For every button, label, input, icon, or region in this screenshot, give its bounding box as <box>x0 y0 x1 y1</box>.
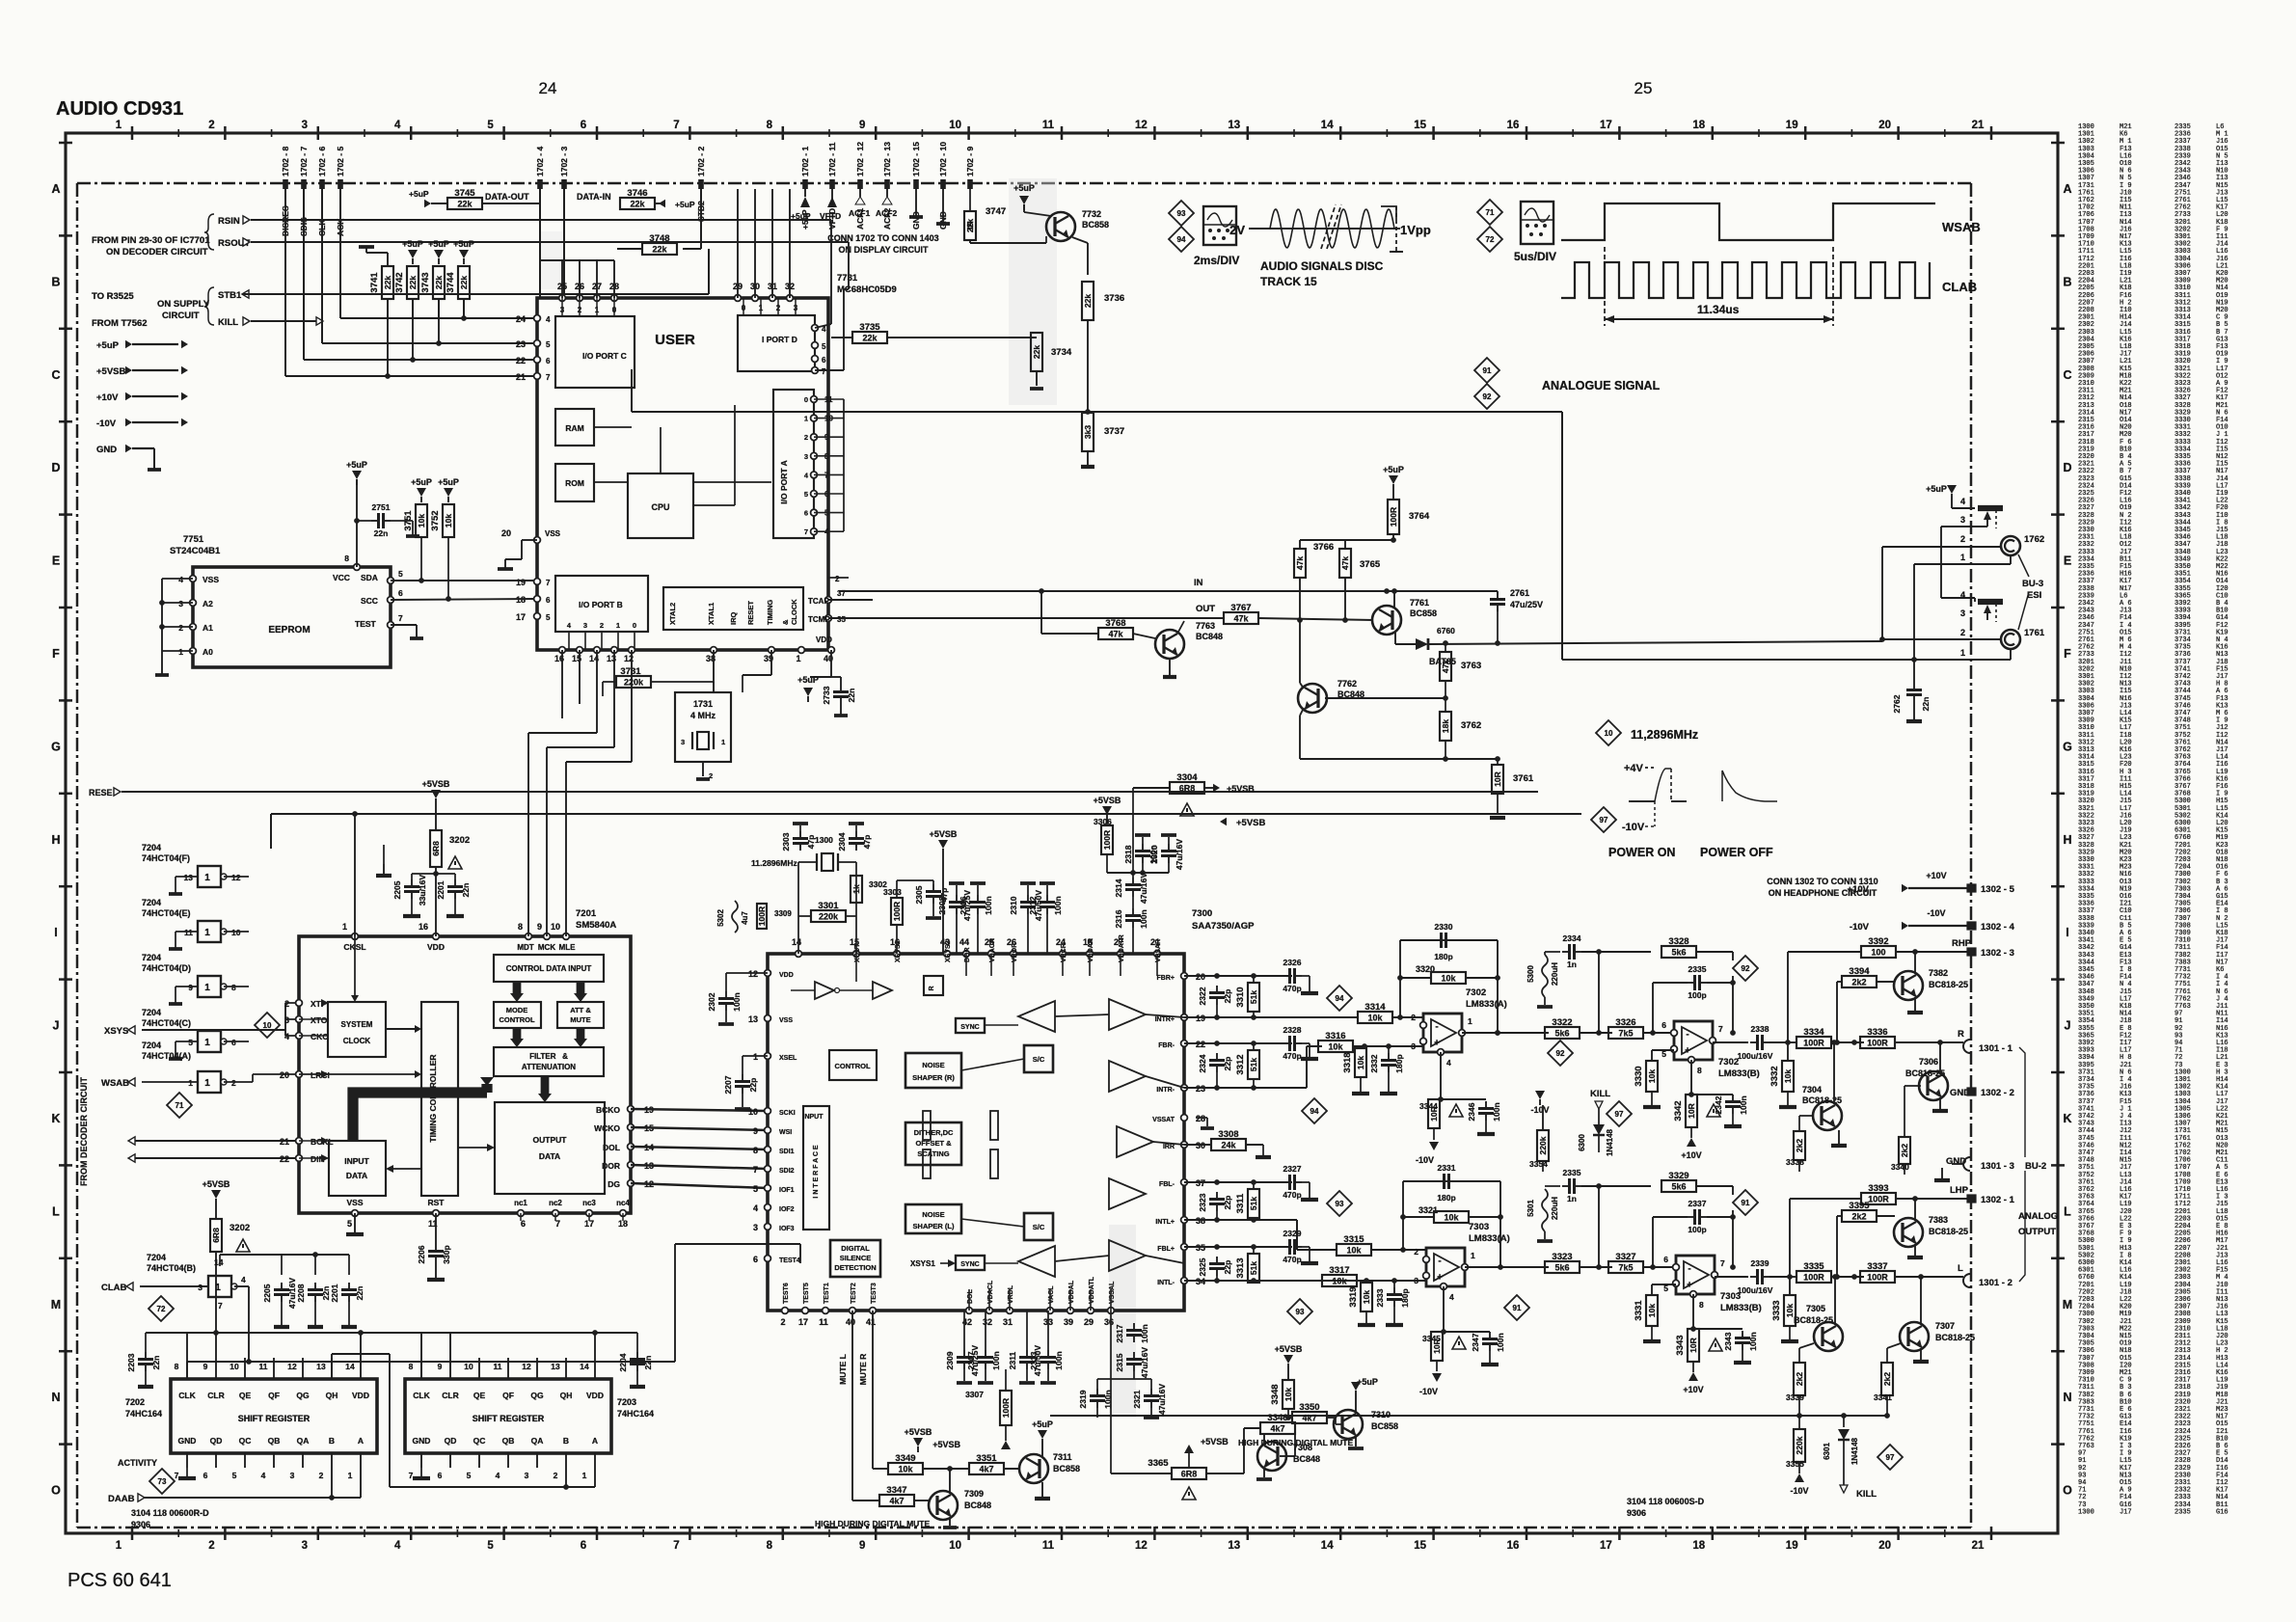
svg-text:1: 1 <box>1960 553 1965 562</box>
svg-text:LM833(A): LM833(A) <box>1469 1233 1510 1244</box>
svg-text:PCS 60 641: PCS 60 641 <box>68 1570 172 1591</box>
opamp tri L3 <box>1109 1240 1146 1271</box>
capacitor 2328 470p <box>1283 1025 1318 1061</box>
transistor 7732 BC858 <box>970 209 1109 243</box>
junction dots pullups <box>385 299 467 379</box>
svg-text:2: 2 <box>1960 534 1965 544</box>
USER top pins 25-28 <box>540 189 619 301</box>
svg-text:2: 2 <box>1414 1247 1418 1257</box>
svg-text:R: R <box>1958 1029 1964 1040</box>
connector pin 1702 - 4 <box>535 147 545 189</box>
capacitor 2317 100n <box>1115 1311 1149 1343</box>
svg-text:22p: 22p <box>1223 1260 1232 1275</box>
svg-text:F: F <box>2064 647 2071 661</box>
resistor 3334 100R <box>1788 1027 1864 1048</box>
svg-text:BU-2: BU-2 <box>2025 1161 2046 1172</box>
svg-text:3104 118 00600S-D: 3104 118 00600S-D <box>1627 1497 1705 1506</box>
resistor 3735 22k <box>831 322 1037 343</box>
capacitor 2320 47u/16V <box>1149 835 1184 873</box>
svg-text:470p: 470p <box>1283 1255 1301 1264</box>
opamp tri R3 <box>1109 1061 1146 1092</box>
scan smudge 1 <box>1009 178 1057 405</box>
supply +5VSB left arrow <box>1220 818 1266 828</box>
coil 5300 220uH <box>1526 952 1559 1007</box>
svg-text:2347: 2347 <box>1471 1333 1480 1351</box>
svg-text:5k6: 5k6 <box>1671 948 1686 958</box>
arrow ACF1 <box>849 189 870 218</box>
svg-text:22k: 22k <box>434 276 444 289</box>
svg-text:4k7: 4k7 <box>1270 1424 1284 1434</box>
svg-text:6: 6 <box>398 588 403 598</box>
svg-text:INTL-: INTL- <box>1157 1280 1175 1286</box>
svg-text:TO R3525: TO R3525 <box>92 291 134 302</box>
svg-text:2329: 2329 <box>1283 1229 1302 1238</box>
capacitor 2311 47u/50V <box>1008 1311 1042 1383</box>
svg-text:FROM T7562: FROM T7562 <box>92 318 148 329</box>
block I/O PORT B <box>516 576 648 650</box>
wire 3392 rail up <box>1787 952 1789 1042</box>
svg-text:2317: 2317 <box>1115 1324 1124 1342</box>
svg-text:+5VSB: +5VSB <box>422 779 450 789</box>
svg-text:32: 32 <box>983 1317 992 1327</box>
svg-text:QE: QE <box>239 1391 252 1400</box>
svg-text:2203: 2203 <box>126 1353 136 1371</box>
gnd stub 1702-10 <box>936 189 950 224</box>
svg-text:2: 2 <box>178 623 183 633</box>
svg-text:1: 1 <box>1468 1016 1472 1026</box>
svg-text:+5VSB: +5VSB <box>1201 1437 1229 1446</box>
svg-text:22: 22 <box>280 1154 289 1164</box>
svg-text:74HCT04(B): 74HCT04(B) <box>147 1263 196 1273</box>
svg-text:4 MHz: 4 MHz <box>690 711 716 720</box>
resistor 3335 100R <box>1790 1261 1864 1283</box>
svg-text:74HCT04(F): 74HCT04(F) <box>142 853 190 863</box>
svg-text:nc2: nc2 <box>549 1199 562 1207</box>
svg-text:1: 1 <box>204 928 210 938</box>
svg-text:8: 8 <box>344 554 349 563</box>
resistor 3743 22k <box>420 239 449 318</box>
svg-text:40: 40 <box>846 1317 855 1327</box>
wire cksl down <box>351 936 376 1002</box>
svg-text:GND: GND <box>413 1436 431 1446</box>
svg-text:35: 35 <box>837 615 846 624</box>
svg-text:14: 14 <box>1321 120 1334 131</box>
svg-text:100n: 100n <box>984 896 993 914</box>
capacitor 2762 22n <box>1892 660 1931 721</box>
svg-text:51k: 51k <box>1249 1058 1258 1071</box>
svg-text:INTR-: INTR- <box>1156 1087 1175 1094</box>
svg-text:+: + <box>1434 1038 1440 1048</box>
svg-text:22p: 22p <box>1223 1196 1232 1210</box>
thick arrow cdi-mode <box>510 982 524 1002</box>
diamond 91 output <box>1504 1295 1529 1320</box>
svg-text:BC858: BC858 <box>1410 608 1437 618</box>
svg-text:3741: 3741 <box>369 272 380 293</box>
arrow ACF2 <box>876 189 897 218</box>
svg-text:13: 13 <box>748 1014 758 1024</box>
svg-text:KILL: KILL <box>1590 1089 1610 1099</box>
svg-text:3319: 3319 <box>1348 1286 1359 1307</box>
svg-text:QC: QC <box>473 1436 486 1446</box>
svg-text:-: - <box>1688 1264 1690 1275</box>
svg-text:6760: 6760 <box>1437 626 1455 635</box>
coil 5301 220uH <box>1526 1189 1559 1241</box>
resistor 3327 7k5 <box>1608 1252 1676 1273</box>
svg-text:8: 8 <box>767 1540 773 1552</box>
wire 7310 emitter <box>1348 1435 1364 1448</box>
resistor 3202 6R8 lower <box>210 1219 250 1333</box>
svg-text:F: F <box>52 647 60 661</box>
svg-text:FROM PIN 29-30 OF IC7701: FROM PIN 29-30 OF IC7701 <box>92 235 210 246</box>
label AUDIO SIGNALS DISC <box>1260 259 1384 288</box>
svg-text:1702 - 12: 1702 - 12 <box>855 142 865 176</box>
svg-text:INTL+: INTL+ <box>1155 1219 1175 1226</box>
svg-text:O: O <box>2063 1484 2072 1498</box>
capacitor 2322 22p <box>1184 973 1292 1020</box>
svg-text:VDD: VDD <box>427 942 445 952</box>
svg-text:180p: 180p <box>1400 1288 1410 1307</box>
diamond 92 output <box>1548 1041 1573 1066</box>
svg-text:FBL+: FBL+ <box>1157 1246 1175 1253</box>
svg-text:14: 14 <box>792 937 801 947</box>
svg-text:DETECTION: DETECTION <box>834 1263 876 1272</box>
svg-text:S/C: S/C <box>1033 1223 1045 1231</box>
svg-text:12: 12 <box>748 969 758 979</box>
svg-text:100R: 100R <box>757 906 767 926</box>
svg-text:8: 8 <box>1699 1300 1704 1310</box>
wire 7303b plus <box>1652 1284 1676 1295</box>
wire 7302a out <box>1462 1030 1549 1036</box>
svg-text:3322: 3322 <box>1552 1017 1572 1028</box>
svg-text:7731: 7731 <box>837 273 858 284</box>
resistor ladder saa <box>923 1111 998 1178</box>
svg-text:1702 - 11: 1702 - 11 <box>827 142 837 176</box>
svg-text:LM833(A): LM833(A) <box>1466 999 1507 1010</box>
svg-text:5: 5 <box>398 569 403 579</box>
resistor 3752 10k <box>430 477 459 599</box>
wire USER to MCK <box>547 650 614 936</box>
svg-text:30: 30 <box>1196 1141 1205 1150</box>
resistor 3340 2k2 <box>1891 1137 1910 1175</box>
svg-text:CKO: CKO <box>311 1032 329 1041</box>
wire MUTE L <box>838 1311 852 1500</box>
thick arrow cdi-att <box>574 982 587 1002</box>
svg-text:VSS: VSS <box>346 1198 363 1207</box>
svg-text:nc3: nc3 <box>582 1199 596 1207</box>
svg-text:DG: DG <box>608 1179 620 1189</box>
resistor 3304 6R8 <box>1133 772 1213 873</box>
small box R3 <box>924 976 943 995</box>
svg-text:91: 91 <box>1742 1199 1750 1207</box>
svg-text:nc1: nc1 <box>514 1199 527 1207</box>
svg-text:2307: 2307 <box>966 1351 976 1369</box>
svg-text:-10V: -10V <box>1416 1155 1434 1165</box>
svg-text:2332: 2332 <box>1369 1054 1379 1072</box>
wire timing-input <box>386 1165 421 1173</box>
svg-text:3: 3 <box>302 1540 308 1552</box>
svg-text:6R8: 6R8 <box>1179 784 1196 794</box>
svg-text:4: 4 <box>546 315 551 324</box>
svg-text:100n: 100n <box>1492 1102 1501 1121</box>
svg-text:7302: 7302 <box>1718 1057 1739 1068</box>
svg-text:1: 1 <box>116 1540 122 1552</box>
svg-text:CLOCK: CLOCK <box>343 1037 371 1045</box>
svg-text:XSYS1: XSYS1 <box>895 940 902 962</box>
capacitor 2334 1n <box>1545 933 1602 969</box>
svg-text:22n: 22n <box>151 1356 161 1370</box>
block SYNC top <box>956 1018 985 1033</box>
svg-text:L: L <box>2064 1204 2071 1218</box>
svg-text:3748: 3748 <box>649 233 669 244</box>
capacitor 2303 47p <box>781 824 816 862</box>
svg-text:2207: 2207 <box>723 1075 733 1094</box>
capacitor 2304 47p <box>837 824 872 851</box>
port +10V 1302-5 <box>1848 871 2015 895</box>
svg-text:3336: 3336 <box>1867 1027 1887 1038</box>
svg-text:3365: 3365 <box>1148 1458 1169 1469</box>
svg-text:1: 1 <box>616 621 620 630</box>
resistor 3341 2k2 <box>1874 1343 1901 1419</box>
svg-text:2: 2 <box>835 575 840 583</box>
capacitor 2314 47u/16V <box>1114 873 1148 906</box>
svg-text:BC818-25: BC818-25 <box>1905 1068 1945 1078</box>
svg-text:47k: 47k <box>1233 614 1249 624</box>
svg-text:2304: 2304 <box>837 832 847 851</box>
label 2ms/DIV <box>1194 254 1239 267</box>
svg-text:470p: 470p <box>1283 984 1301 993</box>
wire conn row1b <box>1562 648 2011 662</box>
svg-text:25: 25 <box>1634 79 1653 97</box>
wire serial link y1169 <box>631 1127 768 1130</box>
sine waveform 1Vpp <box>1249 204 1403 252</box>
svg-text:1301 - 3: 1301 - 3 <box>1981 1161 2014 1172</box>
svg-text:51k: 51k <box>1249 1197 1258 1210</box>
svg-text:5300: 5300 <box>1526 965 1535 983</box>
port DAAB <box>108 1468 361 1504</box>
svg-text:VDD: VDD <box>816 635 832 644</box>
svg-text:M: M <box>51 1298 61 1311</box>
USER port C left pins 21-24 <box>516 314 551 382</box>
capacitor 2315 47u/16V <box>1115 1347 1149 1379</box>
svg-text:3349: 3349 <box>895 1453 915 1464</box>
svg-text:3309: 3309 <box>774 909 792 918</box>
svg-text:8: 8 <box>409 1362 414 1371</box>
resistor 3342 10R <box>1673 1095 1720 1160</box>
svg-text:91: 91 <box>1513 1304 1522 1312</box>
svg-text:3342: 3342 <box>1673 1100 1684 1121</box>
wire lrci-timing <box>299 1070 421 1078</box>
svg-text:2: 2 <box>1960 628 1965 637</box>
svg-text:+5uP: +5uP <box>402 239 423 249</box>
svg-text:2V: 2V <box>1229 223 1245 237</box>
svg-text:SYSTEM: SYSTEM <box>341 1020 373 1029</box>
wire conn row2a <box>1882 534 2002 639</box>
svg-text:OUTPUT: OUTPUT <box>2018 1227 2056 1237</box>
block NOISE SHAPER L <box>905 1204 961 1233</box>
svg-text:4k7: 4k7 <box>1302 1414 1316 1423</box>
capacitor 2327 470p <box>1283 1164 1318 1200</box>
block SYSTEM CLOCK <box>328 1002 386 1057</box>
svg-text:POWER ON: POWER ON <box>1608 846 1675 859</box>
svg-text:7300: 7300 <box>1192 908 1212 919</box>
svg-text:8: 8 <box>518 922 523 932</box>
wire 7762 base <box>1325 695 1448 701</box>
svg-text:7k5: 7k5 <box>1618 1029 1633 1039</box>
svg-text:20: 20 <box>280 1070 289 1080</box>
connector pin 1702 - 7 (SDIS) <box>299 147 309 236</box>
svg-text:1702 - 15: 1702 - 15 <box>911 142 921 176</box>
capacitor 2751 22n <box>354 502 419 538</box>
svg-text:ACF2: ACF2 <box>876 208 897 218</box>
diamond 71 <box>1477 200 1502 225</box>
connector pin 1702 - 1 (+5uP) <box>800 147 810 230</box>
svg-text:DATA-OUT: DATA-OUT <box>485 192 529 202</box>
svg-text:G: G <box>2063 740 2072 753</box>
svg-text:3737: 3737 <box>1104 426 1124 437</box>
svg-text:470p: 470p <box>1283 1051 1301 1061</box>
svg-text:1702 - 13: 1702 - 13 <box>882 142 892 176</box>
diamond 91 analogue <box>1474 358 1499 383</box>
svg-text:7310: 7310 <box>1371 1410 1391 1419</box>
resistor 3313 51k <box>1235 1244 1259 1284</box>
ic label 7731 MC68HC05D9 <box>837 273 897 295</box>
svg-text:2: 2 <box>554 1471 558 1480</box>
svg-text:+10V: +10V <box>1926 871 1946 880</box>
svg-text:72: 72 <box>1486 235 1495 244</box>
svg-text:VACL: VACL <box>1048 1285 1055 1304</box>
resistor 3761 10R <box>1490 759 1534 818</box>
svg-text:SYNC: SYNC <box>960 1024 979 1031</box>
connector pin 1702 - 5 (ACK) <box>336 147 345 236</box>
svg-text:100u/16V: 100u/16V <box>1738 1285 1773 1295</box>
svg-text:47k: 47k <box>1340 556 1350 570</box>
ic label 7201 SM5840A <box>576 908 616 931</box>
svg-text:3: 3 <box>198 1283 203 1292</box>
capacitor 2306 100n <box>959 883 993 954</box>
svg-text:5: 5 <box>546 340 551 349</box>
label HIGH DURING DIGITAL MUTE center <box>815 1519 930 1528</box>
svg-text:19: 19 <box>516 578 526 587</box>
transistor 7382 BC818-25 <box>1894 952 1968 1013</box>
connector pin 1702 - 12 (ACF1) <box>855 142 865 230</box>
diamond 73 <box>149 1469 175 1494</box>
SAA7350 bottom pins <box>780 1276 1116 1327</box>
svg-text:I/O PORT A: I/O PORT A <box>779 460 789 504</box>
label 5us/DIV <box>1514 250 1556 263</box>
svg-text:7204: 7204 <box>142 1041 161 1050</box>
SAA7350 right pins <box>1152 972 1205 1286</box>
svg-text:7204: 7204 <box>142 953 161 962</box>
svg-text:7: 7 <box>546 579 551 587</box>
note TO R3525 <box>92 291 134 302</box>
svg-text:14: 14 <box>345 1362 355 1371</box>
connector pin 1702 - 11 (VFTD) <box>827 142 837 230</box>
svg-text:+5VSB: +5VSB <box>1094 796 1121 805</box>
svg-text:39: 39 <box>1064 1317 1073 1327</box>
capacitor 2321 47u/16V <box>1132 1379 1167 1418</box>
svg-text:+: + <box>1437 1272 1443 1283</box>
svg-text:DATA-IN: DATA-IN <box>577 192 611 202</box>
supply +5VSB mid bottom <box>1184 1437 1229 1468</box>
svg-text:3348: 3348 <box>1270 1384 1281 1404</box>
svg-text:2205: 2205 <box>262 1284 272 1302</box>
svg-text:92: 92 <box>1556 1049 1565 1058</box>
svg-text:+5uP: +5uP <box>1013 183 1035 193</box>
resistor 3311 51k <box>1235 1179 1259 1223</box>
svg-text:+: + <box>1687 1280 1692 1290</box>
svg-text:3751: 3751 <box>403 510 414 531</box>
capacitor 2208 22n <box>282 1252 349 1327</box>
page number 24 <box>539 79 557 97</box>
wire saa sc links <box>961 1025 1024 1263</box>
svg-text:33u/16V: 33u/16V <box>418 875 427 906</box>
svg-text:VSSAR: VSSAR <box>1155 939 1162 962</box>
resistor 3763 47k <box>1440 644 1481 698</box>
svg-text:1k: 1k <box>851 884 861 894</box>
svg-text:J: J <box>2065 1019 2071 1033</box>
resistor 3349 10k <box>873 1453 969 1474</box>
svg-text:1: 1 <box>188 1078 193 1088</box>
svg-text:DATA: DATA <box>346 1171 367 1180</box>
wire 7311 emitter <box>1035 1482 1050 1499</box>
svg-text:22p: 22p <box>748 1078 758 1093</box>
svg-text:9: 9 <box>537 922 542 932</box>
connector pin 1702 - 9 (IR) <box>965 147 975 230</box>
svg-text:21: 21 <box>516 372 526 382</box>
label DATA-OUT <box>485 192 529 202</box>
capacitor 2332 180p <box>1369 1046 1404 1094</box>
svg-text:71: 71 <box>176 1101 184 1110</box>
label 11,2896MHz <box>1631 728 1698 742</box>
svg-text:QH: QH <box>326 1391 338 1400</box>
svg-text:2201: 2201 <box>436 880 446 899</box>
svg-text:1762: 1762 <box>2024 534 2044 545</box>
svg-text:4k7: 4k7 <box>889 1497 904 1506</box>
wire 7303a pin4 <box>1443 1286 1445 1332</box>
svg-text:4u7: 4u7 <box>741 911 749 925</box>
svg-text:A: A <box>2063 182 2071 196</box>
svg-text:VCC: VCC <box>333 573 350 582</box>
svg-text:IOF2: IOF2 <box>779 1206 795 1213</box>
svg-text:1702 - 1: 1702 - 1 <box>800 147 810 176</box>
SM5840A pin 20 LRCI <box>280 1070 330 1080</box>
svg-text:G16: G16 <box>2216 1508 2228 1516</box>
svg-text:7: 7 <box>804 527 808 536</box>
label WSAB <box>1942 220 1981 234</box>
svg-text:2315: 2315 <box>1115 1353 1124 1371</box>
svg-text:100n: 100n <box>1053 896 1063 914</box>
svg-text:11: 11 <box>259 1362 268 1371</box>
svg-text:3763: 3763 <box>1461 661 1481 671</box>
svg-text:16: 16 <box>419 922 428 932</box>
svg-text:INPUT: INPUT <box>803 1114 824 1121</box>
resistor 3331 10k <box>1634 1295 1661 1341</box>
svg-text:10k: 10k <box>1647 1304 1657 1317</box>
diamond 92 analogue <box>1474 384 1499 409</box>
svg-text:VDDATL: VDDATL <box>1089 1276 1095 1304</box>
svg-text:18: 18 <box>1692 1540 1705 1552</box>
op-amp U_USER outline <box>537 298 828 650</box>
svg-text:3338: 3338 <box>1786 1157 1804 1167</box>
supply +5uP for 3745 <box>409 189 447 207</box>
block CONTROL DATA INPUT <box>494 955 604 982</box>
transistor 7309 BC848 <box>929 1469 991 1527</box>
wire conn row1a <box>1914 553 2011 660</box>
supply +5VSB 3306 line <box>930 829 958 954</box>
svg-text:7382: 7382 <box>1929 968 1948 978</box>
diode 6300 1N4148 <box>1578 1119 1614 1156</box>
svg-text:2322: 2322 <box>1198 987 1207 1005</box>
